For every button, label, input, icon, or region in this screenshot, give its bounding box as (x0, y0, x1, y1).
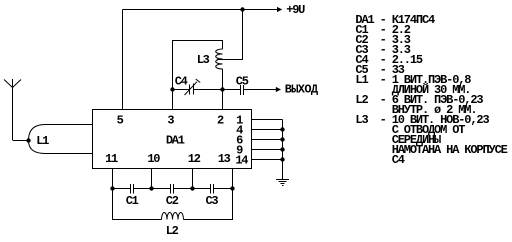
svg-text:C1: C1 (126, 194, 139, 208)
wire ground bus (282, 120, 284, 180)
svg-text:DA1: DA1 (166, 134, 185, 148)
svg-text:+9U: +9U (286, 3, 305, 17)
antenna (4, 79, 21, 140)
wire C1 to node10 (134, 188, 152, 190)
wire pin 12 (192, 169, 194, 189)
wire tap from +9V to L3 center (217, 10, 243, 60)
capacitor C5 (241, 85, 244, 95)
capacitor C3 (211, 184, 214, 194)
wire C4 to node (194, 89, 223, 91)
wire pin 2 (222, 90, 224, 110)
inductor L3 (216, 49, 223, 69)
svg-text:13: 13 (218, 152, 231, 166)
svg-text:L3: L3 (197, 53, 210, 67)
node pin13 junction (230, 186, 234, 190)
svg-text:ВЫХОД: ВЫХОД (285, 83, 319, 97)
node pin3/C4 junction (170, 87, 174, 91)
ground (276, 180, 289, 186)
node pin12 junction (190, 186, 194, 190)
node pin10 junction (149, 186, 153, 190)
node pin6 junction (280, 137, 284, 141)
wire pin 4 (252, 129, 283, 131)
svg-text:C5: C5 (236, 75, 249, 89)
wire node11 to C1 (113, 188, 131, 190)
wire pin 9 (252, 149, 283, 151)
wire node10 to C2 (152, 188, 171, 190)
wire node12 to C3 (193, 188, 211, 190)
svg-text:L1: L1 (36, 134, 49, 148)
wire pin 1 (252, 119, 283, 121)
wire pin 3 (172, 90, 174, 110)
wire pin 14 (252, 159, 283, 161)
wire tank loop top (173, 41, 223, 90)
wire node to C4 (173, 89, 190, 91)
svg-text:10: 10 (147, 152, 160, 166)
wire C5 to output (244, 89, 281, 91)
svg-text:С4: С4 (355, 153, 404, 167)
wire +9V rail (123, 9, 282, 11)
wire L3 bottom to node (222, 69, 224, 90)
wire node to C5 (223, 89, 241, 91)
node pin14 junction (280, 157, 284, 161)
output arrow (276, 87, 281, 92)
svg-text:L2: L2 (166, 224, 179, 238)
+9V arrow (277, 7, 282, 12)
capacitor C4 (variable) (185, 79, 201, 95)
wire antenna to L1 (13, 140, 29, 142)
svg-text:12: 12 (188, 152, 201, 166)
capacitor C2 (171, 184, 174, 194)
svg-text:C3: C3 (206, 194, 219, 208)
inductor L1 (single-turn loop) (29, 125, 93, 154)
node pin9 junction (280, 147, 284, 151)
wire pin 5 to +9V rail (122, 10, 124, 110)
node pin11 junction (110, 186, 114, 190)
wire pin 6 (252, 139, 283, 141)
wire L2 right leg (184, 189, 233, 220)
inductor L2 (162, 213, 184, 220)
capacitor C1 (131, 184, 134, 194)
svg-text:11: 11 (105, 152, 118, 166)
wire C3 to node13 (214, 188, 233, 190)
wire pin 13 (232, 169, 234, 189)
wire pin 10 (151, 169, 153, 189)
wire L2 left leg (113, 189, 162, 220)
wire C2 to node12 (174, 188, 193, 190)
parts list (355, 13, 507, 167)
svg-text:C2: C2 (166, 194, 179, 208)
wire pin 11 (112, 169, 114, 189)
node +9V tap junction (240, 7, 244, 11)
svg-text:C4: C4 (175, 75, 188, 89)
node antenna/L1 junction (26, 138, 30, 142)
svg-text:14: 14 (235, 153, 248, 167)
node pin4 junction (280, 127, 284, 131)
node pin2/L3/C5 junction (220, 87, 224, 91)
IC DA1 (К174ПС4) body (93, 110, 252, 169)
